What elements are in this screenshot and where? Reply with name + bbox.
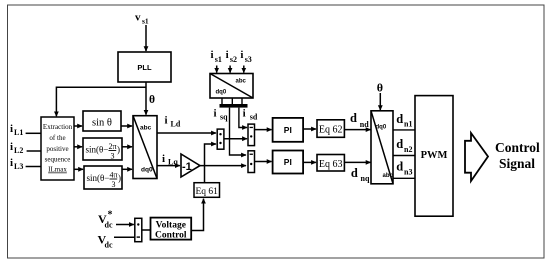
- svg-text:Signal: Signal: [499, 156, 535, 171]
- block Extraction of the positive sequence ILmax: [41, 117, 74, 180]
- wire gain -1 output to summer C: [200, 165, 246, 167]
- wire PLL theta output to abc-dq0 block T1: [145, 82, 147, 115]
- wire theta branch to Extraction block: [56, 87, 146, 116]
- block Voltage Control: [151, 218, 192, 241]
- block PI 1: [273, 118, 304, 142]
- svg-text:PLL: PLL: [137, 63, 152, 72]
- wire i_L1 to Extraction: [26, 132, 41, 134]
- svg-text:i: i: [162, 153, 165, 165]
- svg-text:L1: L1: [14, 128, 23, 137]
- svg-text:ILmax: ILmax: [48, 166, 67, 174]
- bus bar under T2: [220, 104, 248, 108]
- wire Extraction to sin(theta-2pi/3): [74, 146, 82, 148]
- node d_n2 label: [396, 137, 412, 154]
- node Vdc measured label: [98, 233, 113, 250]
- svg-text:dc: dc: [105, 241, 113, 250]
- svg-text:Eq 63: Eq 63: [319, 159, 343, 170]
- svg-text:i: i: [10, 123, 13, 135]
- svg-text:dq0: dq0: [216, 90, 227, 96]
- wire i_Lq from T1 to gain -1: [157, 165, 180, 167]
- svg-text:i: i: [243, 108, 246, 120]
- summer B: [248, 124, 255, 146]
- svg-text:L2: L2: [14, 146, 23, 155]
- wire i_sd from bus to summer B: [239, 108, 247, 128]
- block PLL: [118, 52, 171, 82]
- svg-text:PI: PI: [284, 125, 292, 135]
- svg-text:sequence: sequence: [45, 156, 71, 164]
- svg-text:nd: nd: [360, 120, 369, 129]
- svg-text:abc: abc: [236, 79, 247, 85]
- svg-text:of the: of the: [49, 134, 65, 142]
- wire Vdc* to summer S: [116, 224, 134, 226]
- svg-text:2π: 2π: [109, 142, 117, 151]
- block PI 2: [273, 151, 304, 174]
- wire T2 output stubs: [222, 98, 242, 104]
- svg-text:dq0: dq0: [141, 167, 153, 174]
- summer C: [248, 151, 255, 173]
- svg-text:): ): [118, 173, 121, 183]
- wire summer A to summer B: [224, 138, 247, 140]
- node Vdc* reference label: [98, 210, 113, 230]
- wire summer C to PI 2: [255, 161, 272, 163]
- svg-text:*: *: [108, 210, 113, 221]
- wire summer B to PI 1: [255, 129, 272, 131]
- svg-text:v: v: [135, 11, 141, 23]
- block sin(theta-4pi/3): [84, 166, 122, 189]
- summer A: [217, 129, 224, 149]
- wire PI 1 to Eq62: [303, 128, 316, 130]
- block arrow output: [465, 133, 488, 181]
- svg-text:Ld: Ld: [171, 120, 181, 129]
- svg-text:positive: positive: [46, 145, 68, 153]
- svg-text:3: 3: [112, 180, 116, 189]
- svg-text:Eq 62: Eq 62: [319, 125, 343, 136]
- node i_Lq label: [162, 153, 178, 167]
- svg-text:nq: nq: [361, 174, 370, 183]
- node i_s3 label: [240, 49, 251, 64]
- wire d_n3 to PWM: [393, 177, 415, 179]
- wire i_s2 into T2: [229, 66, 231, 73]
- svg-text:sin(θ−: sin(θ−: [86, 145, 109, 155]
- svg-text:i: i: [211, 49, 214, 61]
- node i_L2 label: [10, 141, 23, 155]
- svg-text:PWM: PWM: [421, 150, 448, 161]
- svg-text:d: d: [396, 160, 403, 174]
- node i_Ld label: [165, 115, 181, 129]
- wire theta into T3: [379, 93, 381, 110]
- gain block -1 triangle: [181, 154, 200, 177]
- svg-text:s1: s1: [215, 55, 222, 64]
- wire i_s1 into T2: [216, 66, 218, 73]
- svg-text:n1: n1: [404, 120, 412, 129]
- wire d_n2 to PWM: [393, 155, 415, 157]
- node i_L1 label: [10, 123, 23, 137]
- wire sin(theta-2pi/3) to T1: [122, 146, 132, 148]
- svg-text:s2: s2: [230, 55, 237, 64]
- node Control Signal label: [495, 140, 540, 171]
- wire Voltage Control to Eq61: [191, 199, 203, 231]
- svg-text:i: i: [10, 157, 13, 169]
- wire sin(theta-4pi/3) to T1: [122, 168, 132, 170]
- wire Extraction to sin(theta): [74, 125, 82, 127]
- svg-text:Extraction: Extraction: [43, 123, 73, 131]
- svg-text:PI: PI: [284, 157, 292, 167]
- svg-text:sin θ: sin θ: [92, 118, 112, 129]
- svg-text:d: d: [351, 166, 358, 180]
- svg-text:sd: sd: [250, 113, 258, 122]
- svg-text:dc: dc: [105, 221, 113, 230]
- svg-text:): ): [117, 145, 120, 155]
- svg-text:-1: -1: [182, 161, 192, 173]
- wire Eq61 up to summer A: [205, 144, 216, 183]
- wire Eq63 d_nq to T3: [344, 161, 370, 163]
- wire v_s1 to PLL: [145, 25, 147, 51]
- svg-text:i: i: [165, 115, 168, 127]
- block sin(theta): [83, 111, 121, 131]
- wire i_sq from bus to summer C: [230, 108, 246, 155]
- block Eq 63: [317, 155, 344, 172]
- block Eq 61: [194, 183, 220, 198]
- node d_n3 label: [396, 160, 412, 177]
- node i_s2 label: [226, 49, 237, 64]
- summer S for Vdc: [135, 218, 142, 241]
- svg-text:i: i: [240, 49, 243, 61]
- svg-text:4π: 4π: [110, 171, 118, 180]
- wire Extraction to sin(theta-4pi/3): [74, 168, 83, 170]
- wire sin(theta) to T1: [121, 125, 132, 127]
- svg-text:L3: L3: [14, 162, 23, 171]
- svg-text:d: d: [396, 112, 403, 126]
- node v_s1 input label: [135, 11, 149, 25]
- svg-text:abc: abc: [383, 173, 394, 179]
- svg-text:θ: θ: [377, 81, 383, 95]
- svg-text:i: i: [214, 108, 217, 120]
- block T2 abc to dq0 transform for source currents: [210, 74, 253, 99]
- wire i_s3 into T2: [243, 66, 245, 73]
- block T3 dq0 to abc transform: [371, 111, 394, 184]
- svg-text:i: i: [226, 49, 229, 61]
- svg-text:abc: abc: [140, 125, 152, 132]
- wire i_L3 to Extraction: [26, 166, 41, 168]
- svg-text:s1: s1: [142, 16, 149, 25]
- svg-text:n2: n2: [404, 145, 412, 154]
- svg-text:d: d: [396, 137, 403, 151]
- wire d_n1 to PWM: [393, 129, 415, 131]
- svg-text:Voltage: Voltage: [156, 221, 186, 231]
- svg-text:3: 3: [111, 152, 115, 161]
- wire Eq62 d_nd to T3: [344, 129, 370, 131]
- wire summer S to Voltage Control: [142, 229, 151, 231]
- node i_sq label: [214, 108, 229, 122]
- node d_n1 label: [396, 112, 412, 129]
- svg-text:θ: θ: [149, 94, 155, 106]
- svg-text:Eq 61: Eq 61: [195, 187, 218, 197]
- wire Vdc to summer S: [114, 236, 135, 238]
- block sin(theta-2pi/3): [83, 138, 122, 161]
- svg-text:sin(θ−: sin(θ−: [87, 173, 110, 183]
- node d_nq label: [351, 166, 370, 183]
- block T1 abc to dq0 transform: [133, 116, 157, 179]
- svg-text:d: d: [350, 111, 357, 125]
- svg-text:Control: Control: [495, 140, 540, 155]
- svg-text:s3: s3: [245, 55, 252, 64]
- block PWM: [415, 96, 453, 217]
- node i_sd label: [243, 108, 258, 122]
- wire PI 2 to Eq63: [303, 161, 316, 163]
- node d_nd label: [350, 111, 369, 129]
- svg-text:Lq: Lq: [168, 158, 178, 167]
- svg-text:i: i: [10, 141, 13, 153]
- node i_s1 label: [211, 49, 222, 64]
- wire i_L2 to Extraction: [27, 150, 41, 152]
- node i_L3 label: [10, 157, 23, 171]
- wire i_Ld from T1 to summer A: [157, 132, 216, 134]
- svg-text:n3: n3: [404, 168, 412, 177]
- svg-text:sq: sq: [220, 113, 228, 122]
- svg-text:dq0: dq0: [376, 124, 387, 130]
- block Eq 62: [317, 120, 344, 138]
- svg-text:Control: Control: [155, 231, 187, 241]
